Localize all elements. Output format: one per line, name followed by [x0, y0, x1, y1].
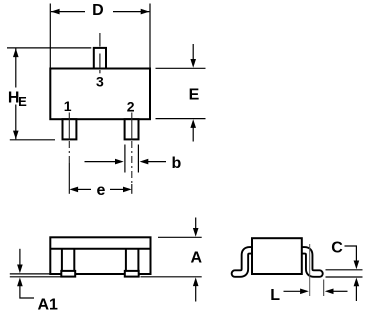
side view seating plane line left	[10, 276, 62, 278]
dimension E top extension line	[156, 67, 206, 69]
svg-text:1: 1	[64, 98, 72, 114]
dimension HE top extension line	[7, 47, 91, 49]
dimension L arrow line right	[333, 290, 347, 292]
side view right foot pad	[125, 271, 139, 277]
pin 2 center line	[131, 113, 133, 140]
side view left leg left edge	[61, 249, 63, 271]
dimension A arrow bottom	[193, 277, 199, 286]
package body (front view)	[50, 69, 150, 120]
dimension D extension line left	[49, 4, 51, 69]
dimension e line right segment	[110, 188, 123, 190]
dimension b arrow right	[140, 159, 149, 165]
dimension E arrow bottom	[190, 119, 196, 128]
dimension D line left segment	[51, 11, 85, 13]
side view mold seam line	[50, 248, 150, 250]
pin 1 center extension line	[68, 163, 70, 194]
dimension b arrow line left	[85, 161, 116, 163]
dimension A top extension line	[158, 236, 202, 238]
dimension C top line	[326, 269, 363, 271]
svg-text:A: A	[191, 249, 203, 266]
dimension b arrow left	[115, 159, 124, 165]
dimension e arrow left	[69, 187, 78, 193]
dimension A1 leader line	[20, 286, 34, 298]
side view right leg right edge	[137, 249, 139, 271]
dimension e line left segment	[78, 188, 91, 190]
svg-text:C: C	[331, 239, 343, 256]
svg-text:D: D	[92, 2, 104, 19]
pin 2 lead (bottom right)	[125, 119, 139, 139]
dimension L left extension line	[309, 244, 311, 296]
dimension D arrow left	[51, 9, 60, 15]
side view A1 top extension line	[10, 273, 50, 275]
pin 3 center line	[99, 33, 101, 47]
dimension HE line bottom segment	[15, 105, 17, 140]
dimension A arrow top	[193, 228, 199, 237]
dimension D arrow right	[141, 9, 150, 15]
dimension L arrow left	[300, 289, 309, 295]
end view left lead	[235, 250, 254, 273]
dimension e arrow right	[123, 187, 132, 193]
dimension A1 arrow up	[17, 278, 23, 287]
package body (side view)	[50, 237, 150, 274]
dimension C leader line	[345, 246, 357, 261]
dimension C bottom line	[326, 276, 363, 278]
side view left leg right edge	[73, 249, 75, 271]
dimension A arrow line bottom	[195, 286, 197, 302]
dimension A1 arrow line top	[19, 249, 21, 265]
dimension L arrow line left	[284, 290, 301, 292]
dimension A arrow line top	[195, 218, 197, 229]
package body (end view)	[252, 238, 302, 274]
svg-text:L: L	[270, 287, 280, 304]
side view left foot pad	[61, 271, 75, 277]
dimension C arrow down	[354, 261, 360, 270]
dimension E bottom extension line	[156, 118, 206, 120]
dimension L right extension line	[323, 280, 325, 297]
dimension E arrow line bottom	[192, 128, 194, 142]
dimension b extension line right	[137, 145, 139, 173]
dimension HE arrow up	[13, 48, 19, 57]
svg-text:E: E	[18, 94, 27, 109]
pin 2 center extension line	[131, 184, 133, 194]
dimension HE arrow down	[13, 131, 19, 140]
dimension D line right segment	[113, 11, 149, 13]
dimension C arrow up	[354, 278, 360, 287]
dimension b arrow line right	[148, 161, 166, 163]
end view right lead	[300, 250, 320, 273]
side view right leg left edge	[125, 249, 127, 271]
dimension HE line top segment	[15, 48, 17, 87]
svg-text:e: e	[97, 182, 106, 199]
pin 3 lead (top)	[94, 48, 106, 69]
dimension L arrow right	[325, 289, 334, 295]
dimension b extension line left	[124, 145, 126, 173]
svg-text:b: b	[172, 155, 182, 172]
svg-text:2: 2	[127, 99, 135, 115]
side view seating plane line right	[141, 276, 202, 278]
dimension E arrow top	[190, 59, 196, 68]
dimension C arrow line bottom	[355, 286, 357, 301]
pin 1 center line	[68, 113, 70, 140]
svg-text:E: E	[189, 86, 200, 103]
dimension A1 arrow down	[17, 265, 23, 274]
svg-text:3: 3	[96, 74, 104, 90]
svg-text:A1: A1	[38, 296, 59, 313]
dimension HE bottom extension line	[10, 139, 55, 141]
pin 1 lead (bottom left)	[63, 119, 77, 139]
dimension D extension line right	[149, 4, 151, 69]
dimension E arrow line top	[192, 44, 194, 60]
